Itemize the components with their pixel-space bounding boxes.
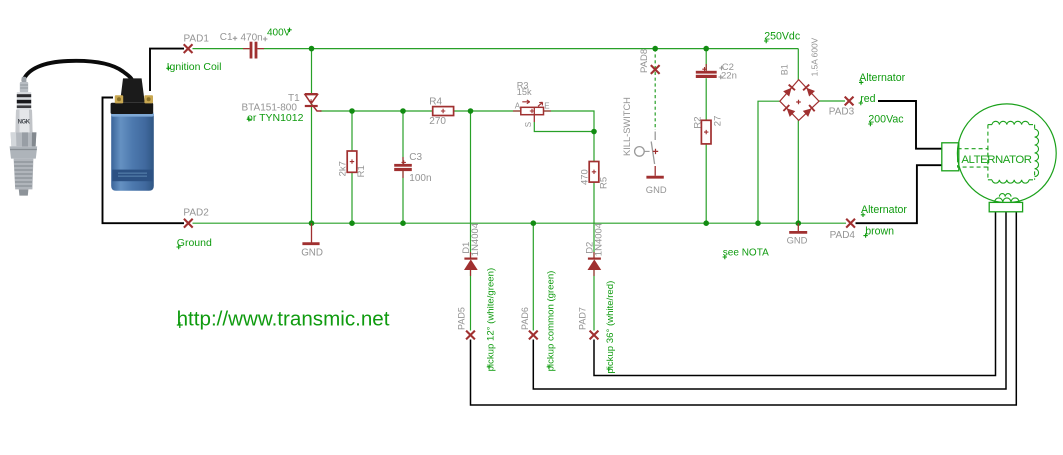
svg-text:PAD3: PAD3 — [829, 107, 855, 118]
junction gate rail at D1 — [468, 108, 474, 114]
junction ground rail at C3 — [400, 220, 406, 226]
svg-text:GND: GND — [787, 234, 808, 245]
wire gate rail y111 — [320, 110, 521, 112]
spark plug hex nut — [11, 132, 37, 146]
svg-text:1N4004: 1N4004 — [594, 223, 605, 256]
spark plug thread — [14, 159, 34, 190]
svg-text:27: 27 — [713, 116, 724, 127]
wire PAD8 dashed drop — [654, 49, 656, 130]
wire bridge bottom drop — [797, 120, 799, 223]
junction ground rail at R1 — [349, 220, 355, 226]
svg-text:PAD4: PAD4 — [830, 230, 856, 241]
pad PAD7 — [590, 331, 599, 340]
alternator connector box left — [942, 143, 959, 171]
bridge rectifier B1 — [780, 80, 819, 121]
trimmer R3 — [513, 100, 551, 122]
coil terminal right — [144, 95, 153, 103]
coil cap tower — [120, 78, 145, 102]
svg-text:R1: R1 — [356, 165, 367, 177]
svg-text:GND: GND — [301, 248, 323, 259]
svg-text:100n: 100n — [409, 173, 431, 184]
junction R3 wiper to R5 — [591, 129, 597, 135]
svg-text:Ignition Coil: Ignition Coil — [167, 61, 222, 73]
resistor R4 — [433, 107, 454, 116]
resistor R1 — [347, 151, 357, 172]
junction gate rail at R1 — [349, 108, 355, 114]
spark plug electrode — [19, 189, 29, 195]
wire PAD4 to alternator — [856, 165, 942, 223]
svg-text:S: S — [524, 122, 533, 127]
ground GND under kill-switch — [646, 166, 663, 177]
svg-text:see NOTA: see NOTA — [723, 247, 769, 258]
svg-text:Alternator: Alternator — [859, 72, 905, 84]
svg-text:or TYN1012: or TYN1012 — [247, 112, 304, 124]
junction top rail at C2 — [703, 46, 709, 52]
svg-text:22n: 22n — [721, 71, 737, 82]
wire R1 column — [351, 111, 353, 151]
pad PAD8 — [651, 65, 660, 74]
svg-text:R2: R2 — [693, 116, 704, 128]
alternator pickup connector — [989, 202, 1022, 211]
wire bridge left corner — [758, 101, 780, 223]
svg-text:brown: brown — [865, 225, 894, 237]
svg-text:KILL-SWITCH: KILL-SWITCH — [622, 97, 632, 156]
svg-text:pickup 12° (white/green): pickup 12° (white/green) — [485, 268, 496, 372]
junction ground rail at T1 — [309, 220, 315, 226]
wire T1 anode-cathode vertical — [311, 49, 313, 224]
junction ground rail at bridge left — [755, 220, 761, 226]
svg-text:pickup common (green): pickup common (green) — [545, 271, 556, 372]
wire PAD6 column — [532, 223, 534, 330]
coil terminal left — [115, 95, 123, 103]
svg-text:400V: 400V — [267, 28, 291, 39]
svg-text:http://www.transmic.net: http://www.transmic.net — [177, 308, 390, 331]
resistor R5 — [589, 162, 599, 183]
svg-text:B1: B1 — [780, 64, 790, 75]
junction ground rail at R2 — [703, 220, 709, 226]
svg-text:ALTERNATOR: ALTERNATOR — [961, 154, 1031, 166]
svg-text:PAD7: PAD7 — [578, 307, 588, 330]
wire D2 column — [593, 223, 595, 258]
wire bridge top drop — [797, 49, 799, 80]
svg-text:470: 470 — [580, 169, 591, 185]
wire PAD2 to coil — [103, 98, 185, 224]
svg-text:2k7: 2k7 — [337, 161, 348, 176]
capacitor C1 — [243, 42, 264, 59]
pad PAD6 — [529, 331, 538, 340]
coil cap base — [111, 103, 154, 114]
svg-text:PAD8: PAD8 — [639, 49, 650, 73]
pad PAD2 — [184, 219, 193, 228]
wire PAD3 to alternator — [878, 101, 942, 149]
alternator body circle — [957, 104, 1056, 203]
thyristor T1 — [305, 94, 322, 111]
svg-text:R4: R4 — [429, 97, 442, 108]
kill-switch S1 — [635, 132, 659, 165]
svg-text:270: 270 — [429, 116, 446, 127]
wire C3 column — [402, 111, 404, 164]
pad PAD1 — [184, 44, 193, 53]
pad PAD5 — [466, 331, 475, 340]
wire PAD1 to coil — [150, 49, 184, 91]
BLACK ROUTING — [103, 49, 1017, 405]
spark plug insulator ribs — [17, 92, 31, 110]
svg-text:Ground: Ground — [177, 237, 212, 249]
svg-text:PAD1: PAD1 — [184, 34, 210, 45]
IGNITION COIL — [111, 78, 154, 190]
svg-text:1N4004: 1N4004 — [470, 223, 481, 256]
diode D1 — [464, 252, 477, 276]
spark plug hv cable — [24, 61, 132, 80]
junction ground rail at bridge bottom — [796, 220, 802, 226]
alternator stator coil box — [988, 121, 1039, 183]
svg-text:E: E — [544, 102, 549, 111]
wire bottom rail — [193, 222, 847, 224]
wire R5 column — [593, 132, 595, 162]
svg-text:PAD5: PAD5 — [456, 307, 466, 330]
ALTERNATOR DRAWING — [942, 104, 1056, 212]
capacitor C2 — [696, 64, 717, 78]
PADS-X — [184, 44, 855, 339]
diode D2 — [588, 252, 601, 276]
wire PAD5 pickup 12 — [471, 212, 1017, 405]
wire R3 wiper loop — [534, 122, 594, 132]
svg-text:R5: R5 — [598, 177, 609, 189]
svg-text:200Vac: 200Vac — [868, 113, 904, 125]
svg-text:pickup 36° (white/red): pickup 36° (white/red) — [605, 281, 616, 374]
alternator pickup coil — [995, 194, 1020, 203]
alternator terminal dashed box — [958, 149, 988, 167]
svg-text:PAD2: PAD2 — [183, 208, 209, 219]
pad PAD3 — [845, 97, 854, 106]
wire C2 R2 column — [705, 49, 707, 71]
svg-text:1.5A 600V: 1.5A 600V — [810, 37, 820, 76]
wire D1 column — [470, 111, 472, 258]
wire PAD6 pickup common — [533, 212, 1006, 389]
wire R3 to corner down — [544, 111, 595, 132]
pad PAD4 — [846, 219, 855, 228]
spark plug terminal — [22, 77, 27, 83]
svg-text:470n: 470n — [241, 33, 263, 44]
wire PAD7 pickup 36 — [594, 212, 996, 376]
ground GND under bridge — [789, 223, 807, 232]
spark plug shell — [10, 146, 38, 158]
wire bridge right to PAD3 — [819, 100, 845, 102]
ground GND under T1 — [302, 223, 319, 244]
spark plug insulator body — [15, 110, 32, 133]
capacitor C3 — [394, 157, 412, 178]
junction gate rail at C3 — [400, 108, 406, 114]
svg-text:15k: 15k — [517, 87, 532, 97]
wire top rail PAD1 to C1 — [193, 48, 250, 50]
svg-text:GND: GND — [646, 184, 667, 195]
resistor R2 — [701, 120, 711, 144]
junction ground rail at PAD6 — [531, 220, 537, 226]
svg-text:250Vdc: 250Vdc — [764, 30, 801, 42]
junction top rail at PAD8 — [652, 46, 658, 52]
svg-text:NGK: NGK — [18, 119, 31, 125]
svg-text:A: A — [515, 101, 521, 110]
wire C1 to bridge-top corner — [258, 48, 799, 50]
junction top rail at T1 — [309, 46, 315, 52]
svg-text:PAD6: PAD6 — [520, 307, 530, 330]
svg-text:C1: C1 — [220, 32, 233, 43]
svg-text:C3: C3 — [409, 152, 422, 163]
svg-text:Alternator: Alternator — [861, 204, 907, 216]
SPARK PLUG — [10, 61, 132, 196]
